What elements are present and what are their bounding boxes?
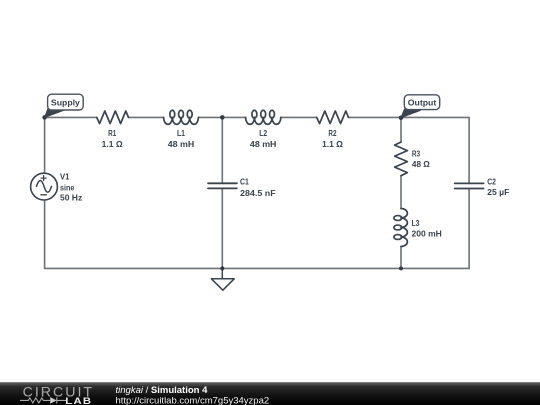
svg-text:sine: sine (60, 183, 75, 192)
inductor L2 (246, 110, 281, 124)
wire: bottom rail (45, 267, 470, 269)
wire: left vertical through V1 (44, 117, 46, 268)
capacitor C1 (208, 183, 237, 188)
node flag Supply (45, 94, 84, 117)
node dot L3 bottom (399, 266, 403, 270)
node dot Supply (42, 115, 47, 120)
svg-text:1.1 Ω: 1.1 Ω (102, 140, 124, 149)
svg-text:R1: R1 (108, 129, 117, 138)
svg-text:V1: V1 (60, 173, 70, 182)
wire: R3/L3 branch (400, 117, 402, 268)
svg-text:48 mH: 48 mH (250, 140, 277, 149)
svg-text:C2: C2 (487, 178, 496, 187)
svg-text:http://circuitlab.com/cm7g5y34: http://circuitlab.com/cm7g5y34yzpa2 (116, 395, 270, 405)
inductor L3 (394, 209, 408, 247)
footer bar (0, 382, 540, 405)
label L1 value (168, 129, 195, 149)
logo diode (50, 397, 56, 404)
wire: C2 branch (468, 117, 470, 268)
label V1 value (60, 173, 82, 203)
label R2 value (322, 129, 344, 149)
svg-text:L3: L3 (412, 219, 420, 228)
svg-text:L1: L1 (177, 129, 185, 138)
wire: R2 to top-right corner (349, 116, 470, 118)
capacitor C2 (455, 183, 484, 188)
svg-text:R3: R3 (412, 150, 421, 159)
svg-text:48 mH: 48 mH (168, 140, 195, 149)
label C2 value (487, 178, 509, 198)
node dot C1 bottom (220, 266, 224, 270)
label R3 value (412, 150, 431, 169)
svg-text:25 µF: 25 µF (487, 188, 509, 197)
node flag Output (401, 95, 440, 118)
label L2 value (250, 129, 277, 149)
wire: C1 branch (221, 117, 223, 268)
svg-text:tingkai / Simulation 4: tingkai / Simulation 4 (116, 385, 209, 396)
resistor R2 (317, 111, 349, 124)
wire: Supply node to R1 (45, 116, 97, 118)
wire: R1 to L1 (129, 116, 164, 118)
voltage source V1 (31, 173, 58, 200)
svg-text:LAB: LAB (65, 396, 92, 405)
ground (211, 268, 234, 290)
inductor L1 (164, 110, 199, 124)
node dot C1 top (220, 115, 225, 120)
node dot Output (399, 116, 404, 121)
svg-text:R2: R2 (328, 129, 337, 138)
svg-text:C1: C1 (240, 178, 249, 187)
svg-text:200 mH: 200 mH (412, 229, 443, 238)
svg-text:50 Hz: 50 Hz (60, 194, 82, 203)
logo resistor zigzag wire (20, 397, 66, 403)
wire: L2 to R2 (281, 116, 317, 118)
svg-text:L2: L2 (259, 129, 267, 138)
svg-text:48 Ω: 48 Ω (412, 160, 431, 169)
svg-text:284.5 nF: 284.5 nF (240, 189, 276, 198)
label L3 value (412, 219, 443, 238)
svg-text:Supply: Supply (51, 97, 80, 107)
label C1 value (240, 178, 276, 198)
svg-text:1.1 Ω: 1.1 Ω (322, 140, 344, 149)
wire: L1 to L2 through node (198, 116, 245, 118)
resistor R3 (395, 142, 408, 176)
resistor R1 (97, 111, 129, 124)
svg-text:Output: Output (408, 98, 437, 108)
label R1 value (102, 129, 124, 149)
